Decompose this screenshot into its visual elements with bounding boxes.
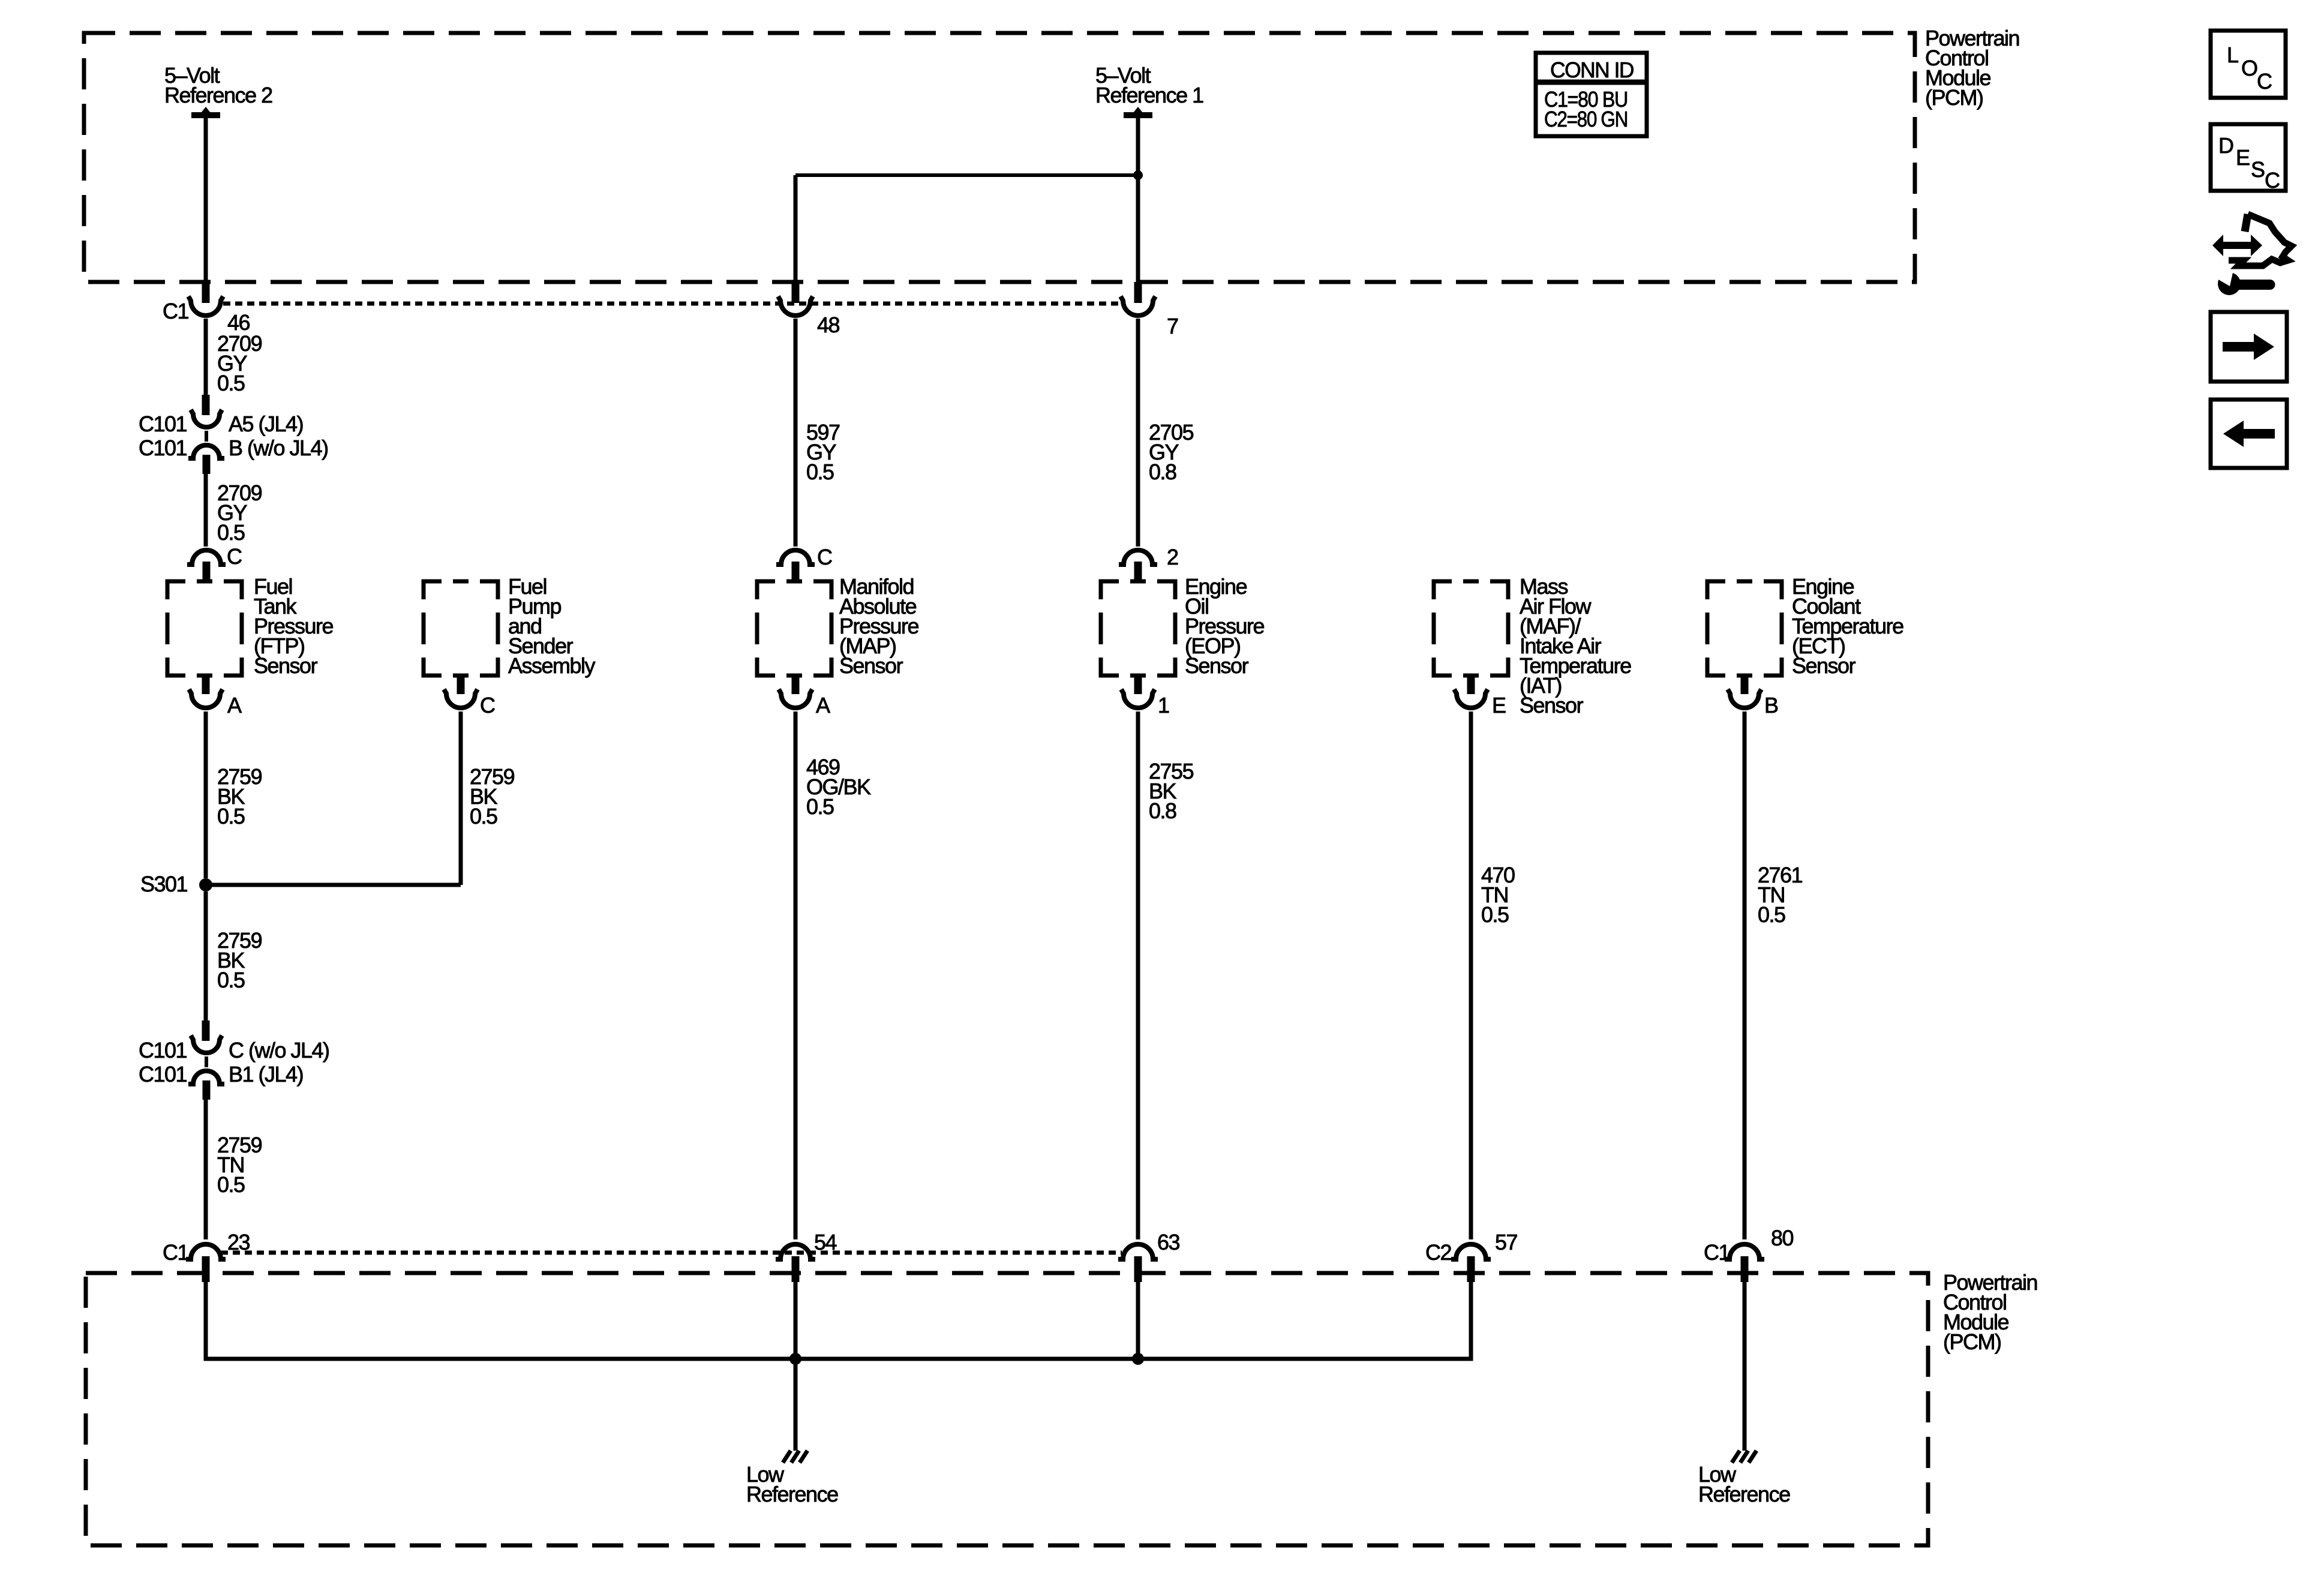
label C101 (row B) xyxy=(139,436,187,460)
pin number 54 xyxy=(814,1230,837,1254)
svg-text:80: 80 xyxy=(1771,1226,1794,1250)
connector PCM C1 terminal 46 xyxy=(188,296,223,316)
component Fuel Tank Pressure (FTP) Sensor box xyxy=(167,581,242,676)
connector MAP sensor terminal C xyxy=(776,550,815,565)
connector FTP terminal A xyxy=(189,689,223,708)
wire splice S301 to fuel pump branch xyxy=(206,883,461,887)
svg-text:63: 63 xyxy=(1157,1230,1180,1254)
wire pin54 to low reference ground xyxy=(794,1282,798,1451)
svg-text:B1 (JL4): B1 (JL4) xyxy=(229,1062,303,1086)
PCM module box (bottom) xyxy=(86,1273,1928,1545)
svg-text:O: O xyxy=(2241,56,2257,80)
pin stub PCM C1 pin 46 xyxy=(202,282,210,303)
wire low reference bus inside PCM xyxy=(206,1282,1471,1359)
connector PCM C1 terminal 80 xyxy=(1725,1244,1764,1259)
terminal letter A (FTP) xyxy=(227,693,242,718)
wire 469 OG/BK to PCM pin 54 xyxy=(794,712,798,1239)
pin stub EOP terminal 1 xyxy=(1134,676,1142,694)
connector PCM C1 terminal 23 xyxy=(186,1244,226,1259)
svg-text:C: C xyxy=(2257,69,2272,94)
pin stub FTP terminal A xyxy=(202,676,210,694)
pin stub C101 upper (ground side) xyxy=(202,1020,210,1041)
svg-text:0.5: 0.5 xyxy=(806,460,834,484)
svg-text:2: 2 xyxy=(1167,545,1178,569)
svg-text:0.5: 0.5 xyxy=(217,968,245,992)
terminal letter A (MAP) xyxy=(816,693,830,718)
svg-text:0.5: 0.5 xyxy=(217,371,245,395)
svg-text:Assembly: Assembly xyxy=(508,653,596,678)
pin stub into EOP sensor xyxy=(1134,562,1142,581)
svg-text:(PCM): (PCM) xyxy=(1943,1329,2001,1354)
svg-text:57: 57 xyxy=(1495,1230,1518,1254)
pin stub ECT terminal B xyxy=(1741,676,1749,694)
wire label 597 GY 0.5 xyxy=(806,420,840,484)
label C1 (top left) xyxy=(163,299,188,323)
wire 470 TN to PCM pin 57 xyxy=(1469,712,1473,1239)
connector C101 half B xyxy=(188,445,224,458)
terminal B1 (JL4) xyxy=(229,1062,303,1086)
connector ECT terminal B xyxy=(1728,689,1761,708)
wire label 2759 BK 0.5 (below S301) xyxy=(217,928,262,992)
icon schematic nav (arrow + wrench) xyxy=(2212,214,2292,295)
svg-text:0.8: 0.8 xyxy=(1149,798,1176,823)
CONN ID box xyxy=(1536,53,1647,136)
wire 2709 GY to FTP sensor xyxy=(204,474,208,547)
pin stub MAF terminal E xyxy=(1467,676,1475,694)
junction dot bus at MAP column xyxy=(789,1353,801,1365)
svg-text:1: 1 xyxy=(1158,693,1169,718)
wire 2759 BK fuel pump branch xyxy=(459,712,463,885)
terminal letter C (pump) xyxy=(480,693,495,718)
label EOP Sensor xyxy=(1185,574,1265,678)
svg-text:7: 7 xyxy=(1167,314,1178,338)
pin stub PCM C1 pin 48 xyxy=(792,282,800,303)
svg-text:A: A xyxy=(227,693,242,718)
svg-text:C2=80 GN: C2=80 GN xyxy=(1544,107,1628,131)
wire label 2759 BK 0.5 (FTP side) xyxy=(217,764,262,828)
terminal letter C (MAP) xyxy=(817,545,832,569)
icon DESC box xyxy=(2211,124,2286,193)
terminal letter C (FTP) xyxy=(227,544,242,569)
svg-text:0.5: 0.5 xyxy=(806,794,834,819)
wire pin80 to low reference ground xyxy=(1743,1282,1747,1451)
svg-text:D: D xyxy=(2218,133,2233,158)
terminal C (w/o JL4) xyxy=(229,1038,329,1062)
connector Fuel Pump terminal C xyxy=(444,689,478,708)
pin number 48 xyxy=(817,313,840,337)
label C2 (bottom) xyxy=(1425,1240,1451,1265)
svg-text:C1: C1 xyxy=(1704,1240,1730,1265)
svg-text:C (w/o JL4): C (w/o JL4) xyxy=(229,1038,329,1062)
pin number 57 xyxy=(1495,1230,1518,1254)
label Powertrain Control Module (PCM) bottom xyxy=(1943,1270,2037,1354)
pin number 23 xyxy=(227,1230,250,1254)
svg-text:Sensor: Sensor xyxy=(839,653,903,678)
svg-text:C: C xyxy=(817,545,832,569)
junction dot bus at EOP column xyxy=(1132,1353,1144,1365)
svg-text:Reference 1: Reference 1 xyxy=(1095,83,1203,107)
svg-text:C: C xyxy=(480,693,495,718)
svg-text:A: A xyxy=(816,693,830,718)
svg-text:Sensor: Sensor xyxy=(1792,653,1856,678)
label C1 (bottom left) xyxy=(163,1240,188,1265)
PCM C1 connector face (dotted, top) xyxy=(223,302,1123,306)
svg-text:C101: C101 xyxy=(139,412,187,436)
svg-text:C101: C101 xyxy=(139,1038,187,1062)
wire link inside C101 (ground side) xyxy=(205,1056,208,1067)
pin stub PCM pin 23 xyxy=(202,1256,210,1282)
label C1 (bottom right) xyxy=(1704,1240,1730,1265)
label C101 (row B1) xyxy=(139,1062,187,1086)
label Low Reference (center) xyxy=(746,1462,838,1506)
svg-text:E: E xyxy=(1492,693,1506,718)
connector FTP sensor terminal C xyxy=(187,550,226,565)
wire pin63 to bus xyxy=(1136,1282,1140,1359)
wire 2759 BK below S301 xyxy=(204,891,208,1020)
wire label 470 TN 0.5 xyxy=(1481,863,1515,927)
svg-text:Reference: Reference xyxy=(746,1482,838,1506)
pin stub C101 lower (ground side) xyxy=(203,1080,211,1100)
connector PCM C1 terminal 7 xyxy=(1121,296,1155,316)
svg-text:0.5: 0.5 xyxy=(1758,902,1785,927)
svg-text:S: S xyxy=(2251,157,2265,182)
svg-text:(PCM): (PCM) xyxy=(1925,85,1983,110)
wire label 2709 GY 0.5 (upper) xyxy=(217,331,262,395)
pin stub C101 upper xyxy=(202,395,210,415)
wire label 2759 BK 0.5 (pump side) xyxy=(470,764,515,828)
wire label 2761 TN 0.5 xyxy=(1758,863,1803,927)
component Engine Oil Pressure (EOP) Sensor box xyxy=(1101,581,1175,676)
connector C101 half B1 xyxy=(188,1071,224,1084)
power feed 5-Volt Reference 2 xyxy=(164,63,272,119)
pin number 46 xyxy=(227,310,250,335)
svg-text:Sensor: Sensor xyxy=(1520,693,1584,718)
label MAP Sensor xyxy=(839,574,919,678)
svg-text:54: 54 xyxy=(814,1230,837,1254)
terminal number 2 (EOP) xyxy=(1167,545,1178,569)
svg-text:C2: C2 xyxy=(1425,1240,1451,1265)
wire 2759 BK from FTP A to S301 xyxy=(204,712,208,878)
label Fuel Tank Pressure (FTP) Sensor xyxy=(254,574,334,678)
label C101 (row A5) xyxy=(139,412,187,436)
wire label 2759 TN 0.5 xyxy=(217,1133,262,1197)
pin stub PCM pin 63 xyxy=(1134,1256,1142,1282)
svg-text:0.5: 0.5 xyxy=(1481,902,1509,927)
icon back arrow box xyxy=(2211,400,2287,468)
svg-text:48: 48 xyxy=(817,313,840,337)
svg-text:C: C xyxy=(2265,168,2280,193)
terminal letter B (ECT) xyxy=(1764,693,1778,718)
connector EOP terminal 1 xyxy=(1121,689,1155,708)
svg-text:CONN ID: CONN ID xyxy=(1550,58,1634,82)
pin stub PCM pin 54 xyxy=(792,1256,800,1282)
icon LOC box xyxy=(2211,31,2286,98)
label Powertrain Control Module (PCM) top xyxy=(1925,26,2019,110)
svg-text:0.5: 0.5 xyxy=(217,520,245,545)
connector C101 half C xyxy=(191,1035,222,1053)
svg-text:B: B xyxy=(1764,693,1778,718)
connector MAP terminal A xyxy=(779,689,812,708)
connector C101 half A5 xyxy=(191,410,222,427)
svg-text:E: E xyxy=(2236,145,2250,170)
wire 2705 GY to EOP sensor xyxy=(1136,319,1140,547)
svg-text:C1: C1 xyxy=(163,1240,188,1265)
connector PCM C2 terminal 57 xyxy=(1451,1244,1491,1259)
pin stub fuel pump terminal C xyxy=(457,676,465,694)
svg-text:Reference 2: Reference 2 xyxy=(164,83,272,107)
svg-text:B (w/o JL4): B (w/o JL4) xyxy=(229,436,328,460)
wire label 2705 GY 0.8 xyxy=(1149,420,1194,484)
PCM C1 connector face (dotted, bottom) xyxy=(221,1251,1122,1255)
wire label 2755 BK 0.8 xyxy=(1149,759,1194,823)
pin number 7 xyxy=(1167,314,1178,338)
terminal letter E (MAF) xyxy=(1492,693,1506,718)
connector MAF terminal E xyxy=(1454,689,1488,708)
svg-text:C101: C101 xyxy=(139,436,187,460)
svg-text:S301: S301 xyxy=(140,872,188,896)
pin stub into MAP sensor xyxy=(792,562,800,581)
junction dot 5V ref1 branch xyxy=(1133,170,1143,180)
svg-text:Reference: Reference xyxy=(1698,1482,1790,1506)
splice S301 junction dot xyxy=(199,878,212,891)
pin stub into FTP sensor xyxy=(203,562,211,581)
wire down to pin 48 xyxy=(794,175,798,282)
wire 597 GY to MAP sensor xyxy=(794,319,798,547)
label Low Reference (right) xyxy=(1698,1462,1790,1506)
wire link inside C101 xyxy=(205,431,208,442)
pin number 80 xyxy=(1771,1226,1794,1250)
component Manifold Absolute Pressure (MAP) Sensor box xyxy=(757,581,831,676)
label MAF/IAT Sensor xyxy=(1520,574,1631,718)
svg-text:C1: C1 xyxy=(163,299,188,323)
svg-text:C101: C101 xyxy=(139,1062,187,1086)
pin number 63 xyxy=(1157,1230,1180,1254)
label ECT Sensor xyxy=(1792,574,1903,678)
label Fuel Pump and Sender Assembly xyxy=(508,574,596,678)
connector EOP sensor terminal 2 xyxy=(1119,550,1157,565)
component Mass Air Flow / IAT Sensor box xyxy=(1434,581,1508,676)
component Fuel Pump and Sender Assembly box xyxy=(424,581,498,676)
pin stub PCM C1 pin 7 xyxy=(1134,282,1142,303)
svg-text:0.8: 0.8 xyxy=(1149,460,1176,484)
wire 2761 TN to PCM pin 80 xyxy=(1743,712,1747,1239)
wire 5V ref2 inside PCM xyxy=(204,118,208,282)
terminal A5 (JL4) xyxy=(229,412,303,436)
pin stub MAP terminal A xyxy=(792,676,800,694)
pin stub C101 lower xyxy=(203,455,211,474)
power feed 5-Volt Reference 1 xyxy=(1095,63,1203,119)
svg-text:0.5: 0.5 xyxy=(470,804,497,828)
wire label 469 OG/BK 0.5 xyxy=(806,755,871,819)
svg-text:C: C xyxy=(227,544,242,569)
wire 2709 GY segment to C101 xyxy=(204,319,208,395)
svg-text:Sensor: Sensor xyxy=(1185,653,1249,678)
ground low reference (center) xyxy=(783,1451,807,1463)
icon forward arrow box xyxy=(2211,312,2287,382)
svg-text:0.5: 0.5 xyxy=(217,804,245,828)
wire label 2709 GY 0.5 (lower) xyxy=(217,481,262,545)
pin stub PCM pin 57 xyxy=(1467,1256,1475,1282)
svg-text:A5 (JL4): A5 (JL4) xyxy=(229,412,303,436)
component Engine Coolant Temperature (ECT) Sensor box xyxy=(1707,581,1782,676)
svg-text:0.5: 0.5 xyxy=(217,1172,245,1197)
wire branch to pin 48 xyxy=(795,173,1138,177)
svg-text:Sensor: Sensor xyxy=(254,653,318,678)
connector PCM C1 terminal 54 xyxy=(776,1244,815,1259)
label C101 (row C) xyxy=(139,1038,187,1062)
PCM module box (top) xyxy=(84,33,1915,282)
wire 5V ref1 inside PCM xyxy=(1136,118,1140,282)
terminal number 1 (EOP) xyxy=(1158,693,1169,718)
label S301 xyxy=(140,872,188,896)
connector PCM C1 terminal 63 xyxy=(1118,1244,1158,1259)
ground low reference (right) xyxy=(1732,1451,1756,1463)
svg-text:L: L xyxy=(2227,43,2238,67)
pin stub PCM pin 80 xyxy=(1741,1256,1749,1282)
wire 2759 TN to PCM pin 23 xyxy=(204,1100,208,1239)
wire 2755 BK to PCM pin 63 xyxy=(1136,712,1140,1239)
connector PCM C1 terminal 48 xyxy=(778,296,813,316)
terminal B (w/o JL4) xyxy=(229,436,328,460)
